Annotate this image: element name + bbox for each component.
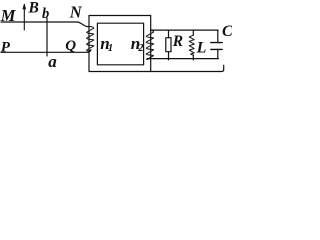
wire bottom rail P to Q (1, 50, 91, 53)
capacitor C top plate (211, 42, 222, 44)
capacitor C bottom plate (211, 48, 222, 50)
wire R branch bottom lead (168, 52, 170, 60)
wire L branch bottom lead (192, 55, 194, 60)
transformer core outer box (89, 16, 151, 72)
secondary winding n2 coil (146, 30, 153, 59)
inductor L coil (189, 35, 194, 55)
B field arrow (23, 5, 25, 30)
svg-text:L: L (196, 40, 207, 57)
wire R branch top lead (168, 30, 170, 38)
wire top rail M to N (1, 22, 88, 27)
svg-text:Q: Q (65, 38, 76, 54)
wire secondary top rail (150, 29, 218, 31)
svg-text:C: C (222, 23, 232, 40)
wire L branch top lead (192, 30, 194, 35)
wire bottom boundary line with upturn end (151, 65, 224, 71)
svg-text:2: 2 (137, 43, 144, 54)
svg-text:R: R (172, 33, 183, 50)
svg-text:B: B (28, 0, 39, 17)
primary winding n1 coil (87, 26, 94, 51)
svg-text:N: N (69, 3, 83, 22)
svg-text:P: P (1, 39, 11, 55)
wire C branch right bottom (217, 49, 219, 58)
svg-text:1: 1 (108, 43, 113, 54)
svg-text:b: b (42, 6, 49, 22)
transformer core inner box (97, 23, 143, 65)
wire C branch right top (217, 30, 219, 42)
svg-text:M: M (0, 6, 17, 25)
svg-text:a: a (48, 52, 57, 71)
rod ab (46, 18, 48, 56)
wire secondary bottom rail (147, 58, 218, 60)
resistor R box (166, 38, 171, 52)
